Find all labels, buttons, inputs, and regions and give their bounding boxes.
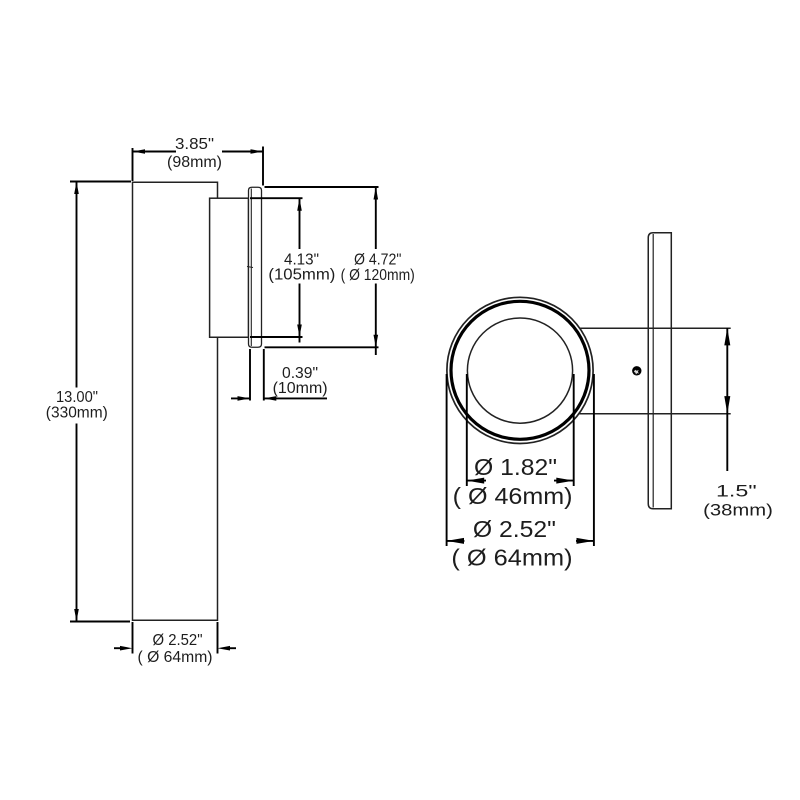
backplate inner edge line (side view) bbox=[250, 189, 252, 347]
svg-text:1.5": 1.5" bbox=[716, 482, 757, 501]
backplate seam tick (side view) bbox=[247, 267, 253, 268]
dimension 0.39in / 10mm (plate thickness) bbox=[231, 349, 327, 401]
svg-text:(330mm): (330mm) bbox=[46, 405, 108, 422]
dimension 3.85in / 98mm (width) bbox=[133, 147, 264, 186]
svg-text:( Ø 64mm): ( Ø 64mm) bbox=[138, 649, 213, 666]
svg-text:( Ø 46mm): ( Ø 46mm) bbox=[453, 483, 573, 509]
dimension dia 2.52in / 64mm (tube diameter, side view) bbox=[114, 622, 236, 654]
svg-text:( Ø 64mm): ( Ø 64mm) bbox=[451, 544, 572, 570]
dimension dia 2.52in / 64mm (tube diameter, front view) bbox=[447, 374, 594, 546]
svg-text:Ø 2.52": Ø 2.52" bbox=[153, 632, 203, 649]
svg-text:3.85": 3.85" bbox=[175, 136, 214, 153]
thick circle (tube face) bbox=[451, 301, 589, 439]
arm bottom line (front view) bbox=[578, 413, 731, 415]
svg-text:Ø 1.82": Ø 1.82" bbox=[474, 454, 557, 480]
dimension dia 4.72in / 120mm (plate diameter) bbox=[265, 187, 379, 355]
svg-text:13.00": 13.00" bbox=[56, 389, 98, 406]
backplate edge (side view) bbox=[249, 187, 262, 347]
svg-text:(98mm): (98mm) bbox=[167, 154, 222, 171]
inner circle (lamp opening) bbox=[467, 318, 572, 423]
svg-text:Ø 2.52": Ø 2.52" bbox=[473, 516, 556, 542]
svg-text:(105mm): (105mm) bbox=[268, 267, 335, 284]
svg-text:(38mm): (38mm) bbox=[703, 501, 773, 520]
screw head bbox=[632, 366, 641, 375]
dimension 1.5in / 38mm (arm width, front view) bbox=[726, 328, 728, 471]
outer circle (tube rim, front view) bbox=[447, 297, 593, 443]
backplate inner edge line (front view) bbox=[652, 234, 654, 508]
arm top line (front view) bbox=[578, 327, 731, 329]
svg-text:(10mm): (10mm) bbox=[273, 380, 328, 397]
dimension 13.00in / 330mm (height) bbox=[70, 182, 131, 622]
dimension 4.13in / 105mm (arm height) bbox=[250, 198, 303, 342]
backplate (front view, edge-on bar) bbox=[648, 233, 671, 509]
tube body (side view) bbox=[133, 182, 218, 620]
mounting arm (side view) bbox=[210, 198, 249, 337]
svg-text:( Ø 120mm): ( Ø 120mm) bbox=[341, 267, 415, 284]
dimension dia 1.82in / 46mm (opening diameter) bbox=[467, 374, 574, 486]
